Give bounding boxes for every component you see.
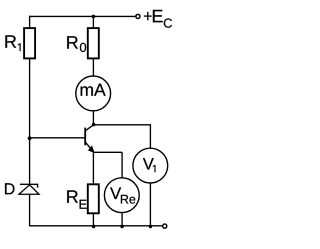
label V1 subscript 1 bbox=[153, 165, 156, 172]
wire V1 bottom lead bbox=[149, 183, 151, 226]
wire left rail lower bbox=[29, 194, 31, 226]
label +Ec plus sign bbox=[144, 15, 152, 17]
label D bbox=[5, 183, 14, 194]
transistor base bar bbox=[84, 128, 86, 146]
node bottom V1 junction bbox=[149, 225, 153, 229]
node bottom VRe junction bbox=[120, 225, 124, 229]
wire emitter down to RE bbox=[92, 152, 94, 185]
meter mA bbox=[76, 76, 111, 111]
resistor R1 bbox=[24, 28, 35, 58]
terminal +Ec bbox=[136, 14, 140, 18]
resistor R0 bbox=[88, 28, 99, 58]
label RE subscript E bbox=[80, 200, 87, 209]
label mA bbox=[81, 84, 106, 96]
wire left rail upper bbox=[29, 16, 31, 29]
meter VRe bbox=[104, 178, 139, 213]
label R1 subscript 1 bbox=[18, 43, 21, 51]
wire collector to V1 bbox=[94, 124, 151, 126]
transistor emitter arrow bbox=[89, 146, 95, 152]
node bottom RE junction bbox=[92, 225, 96, 229]
diode D triangle bbox=[19, 185, 39, 194]
label +Ec subscript C bbox=[164, 19, 172, 28]
wire VRe bottom lead bbox=[121, 213, 123, 226]
resistor RE bbox=[88, 184, 99, 213]
wire base bbox=[30, 137, 85, 139]
label VRe V bbox=[110, 187, 121, 199]
label VRe subscript Re bbox=[121, 195, 135, 204]
wire left rail middle bbox=[29, 58, 31, 184]
wire emitter right bbox=[93, 151, 122, 153]
label R1 bbox=[5, 35, 16, 47]
wire mA to collector node bbox=[92, 111, 94, 124]
meter V1 bbox=[133, 148, 168, 183]
transistor collector stroke bbox=[86, 124, 95, 130]
node junction top bbox=[92, 15, 96, 19]
diode D cathode bar tick bbox=[37, 184, 39, 187]
wire V1 top lead bbox=[149, 125, 151, 149]
wire R0 to mA bbox=[92, 58, 94, 76]
terminal bottom bbox=[163, 224, 167, 228]
label RE bbox=[67, 190, 78, 202]
diode D cathode bar bbox=[20, 183, 38, 185]
label R0 subscript 0 bbox=[80, 43, 86, 52]
wire bottom rail bbox=[29, 225, 162, 227]
label V1 V bbox=[143, 158, 154, 169]
node base junction bbox=[28, 136, 32, 140]
label R0 bbox=[67, 36, 78, 48]
transistor emitter stroke bbox=[86, 142, 94, 152]
wire RE bottom lead bbox=[92, 213, 94, 226]
wire R0 top lead bbox=[92, 16, 94, 28]
node collector junction bbox=[92, 123, 96, 127]
wire top rail bbox=[29, 15, 135, 17]
wire VRe top lead bbox=[121, 152, 123, 178]
label +Ec E bbox=[153, 10, 163, 22]
